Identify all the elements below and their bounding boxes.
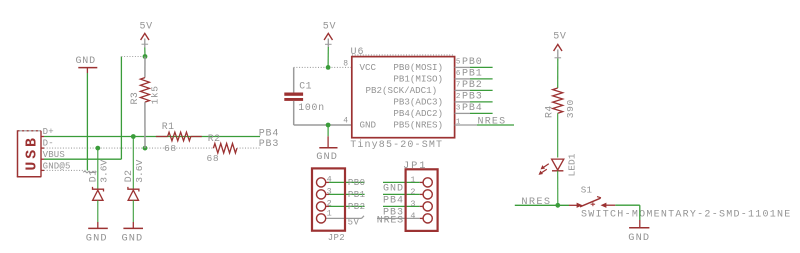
supply 5V (left) arrow: [141, 33, 149, 40]
led LED1 arrow 1: [541, 164, 549, 169]
led LED1 name: [567, 153, 578, 176]
svg-text:GND: GND: [86, 232, 108, 244]
connector JP2 pin4 number: [327, 174, 332, 184]
connector JP1 wire pin4: [377, 217, 423, 219]
svg-text:PB2: PB2: [462, 80, 483, 91]
svg-text:6: 6: [456, 70, 461, 78]
connector JP1 pin1 number: [410, 175, 415, 185]
junction D+ / D2: [131, 134, 136, 139]
connector JP1 pin4 circle: [423, 214, 432, 223]
pin D- stub: [41, 147, 44, 149]
svg-text:C1: C1: [299, 80, 312, 91]
connector JP1 wire pin2: [383, 193, 423, 195]
wire switch to GND: [615, 205, 640, 220]
pin 1 number: [456, 118, 461, 126]
resistor R2 name: [208, 133, 221, 144]
node PB3 label: [259, 139, 280, 150]
svg-text:7: 7: [456, 82, 461, 90]
svg-text:LED1: LED1: [567, 153, 578, 176]
resistor R1 value: [164, 143, 177, 154]
ground GND (under D1) stub: [97, 222, 99, 228]
connector JP1 pin4 number: [410, 211, 415, 221]
connector JP2 wire pin2: [326, 205, 365, 207]
connector JP1 pin3 circle: [423, 202, 432, 211]
node 5V label (JP2): [348, 217, 360, 227]
junction D- / D1: [95, 146, 100, 151]
diode D1 name: [88, 170, 99, 183]
wire D- net (row B) left of R2: [44, 147, 213, 149]
ground GND (under U6) bar: [319, 147, 337, 149]
capacitor C1 plate bottom: [284, 98, 303, 101]
pin PB0 name: [393, 62, 443, 73]
capacitor C1 value: [298, 102, 325, 113]
wire D+ net (row A): [44, 136, 260, 138]
diode D1 triangle: [93, 190, 103, 200]
svg-text:3: 3: [410, 199, 415, 209]
resistor R4 name: [544, 105, 555, 118]
pin 6 stub: [455, 78, 493, 80]
diode D2 wire bottom: [132, 200, 134, 222]
svg-text:1: 1: [410, 175, 415, 185]
pin 8 number: [343, 60, 348, 69]
svg-text:PB1: PB1: [462, 69, 483, 80]
svg-text:JP2: JP2: [328, 233, 345, 243]
capacitor C1 plate top: [284, 93, 303, 96]
diode D2 zener bar: [128, 187, 139, 192]
ground GND (right) bar: [629, 227, 649, 229]
pin 5 number: [456, 59, 461, 67]
svg-text:PB3: PB3: [259, 139, 280, 150]
supply 5V (left) stub: [142, 39, 149, 48]
pin VBUS name: [43, 150, 65, 160]
junction 5V / R3 top: [143, 54, 148, 59]
svg-text:VBUS: VBUS: [43, 150, 65, 160]
connector JP1 pin3 number: [410, 199, 415, 209]
connector JP2 box: [312, 168, 345, 230]
pin 3 stub: [455, 112, 493, 114]
junction NRES / LED: [555, 203, 560, 208]
svg-text:390: 390: [565, 99, 576, 118]
pin PB3 name: [393, 96, 443, 107]
wire VBUS riser: [120, 57, 122, 160]
pin 2 stub: [455, 101, 493, 103]
junction GND rail: [326, 123, 331, 128]
switch S1 name: [581, 184, 593, 195]
node PB4 label: [259, 128, 280, 139]
pin VBUS stub: [41, 158, 44, 160]
svg-text:SWITCH-MOMENTARY-2-SMD-1101NE: SWITCH-MOMENTARY-2-SMD-1101NE: [581, 209, 792, 220]
node PB3 label (at U6): [462, 92, 483, 103]
diode D1 wire top: [97, 148, 99, 188]
ground GND (under D2) label: [122, 232, 144, 244]
svg-text:5V: 5V: [323, 22, 336, 33]
junction D- / R3: [143, 146, 148, 151]
svg-text:GND: GND: [628, 232, 650, 244]
svg-text:PB3(ADC3): PB3(ADC3): [393, 96, 443, 107]
svg-text:PB2: PB2: [348, 202, 366, 212]
node PB0 label (JP2): [348, 178, 366, 188]
ground GND (under D1) label: [86, 232, 108, 244]
svg-text:GND@5: GND@5: [43, 161, 71, 171]
svg-text:NRES: NRES: [478, 117, 507, 128]
wire 5V to junction: [144, 48, 146, 57]
connector JP1 box: [406, 169, 438, 231]
svg-text:3: 3: [456, 105, 461, 113]
resistor R1 right lead: [191, 136, 202, 138]
svg-text:JP1: JP1: [403, 160, 427, 172]
switch S1 left contact: [569, 203, 582, 207]
svg-text:GND: GND: [383, 183, 404, 194]
connector USB right edge: [40, 131, 42, 177]
pin PB2 name: [366, 85, 438, 96]
capacitor C1 top lead: [293, 67, 295, 92]
resistor R3 name: [129, 92, 140, 105]
pin GND@5 squiggle: [83, 171, 97, 173]
node NRES label (left): [521, 196, 551, 208]
svg-text:1k5: 1k5: [150, 85, 161, 104]
ground GND (under U6) label: [316, 151, 338, 163]
connector USB left edge: [17, 130, 19, 177]
resistor R3 bottom lead: [144, 102, 146, 148]
ground GND (right) stub: [639, 220, 641, 228]
svg-text:100n: 100n: [298, 102, 325, 113]
wire 5V to R4: [557, 59, 559, 89]
pin D+ stub: [41, 136, 44, 138]
svg-text:GND: GND: [316, 151, 338, 163]
pin VCC name: [360, 62, 377, 73]
svg-text:PB1(MISO): PB1(MISO): [393, 73, 443, 84]
capacitor C1 bottom lead: [293, 101, 295, 125]
svg-text:3: 3: [327, 186, 332, 196]
svg-text:GND: GND: [360, 120, 377, 131]
connector JP2 name: [328, 233, 345, 243]
svg-text:1: 1: [456, 118, 461, 126]
wire GND vertical: [86, 73, 88, 170]
svg-text:2: 2: [456, 93, 461, 101]
pin 5 stub: [455, 66, 493, 68]
svg-text:5V: 5V: [140, 22, 153, 33]
connector JP1 pin2 circle: [423, 190, 432, 199]
connector JP2 wire pin4: [326, 181, 365, 183]
svg-text:S1: S1: [581, 184, 593, 195]
connector JP1 pin2 number: [410, 187, 415, 197]
svg-text:D+: D+: [43, 127, 54, 137]
node PB4 label (at U6): [462, 103, 483, 114]
ic U6 box: [352, 57, 455, 138]
resistor R3 zigzag: [140, 78, 149, 103]
junction VCC rail / 5V: [326, 65, 331, 70]
ground GND (top-left) stub: [86, 68, 88, 73]
svg-text:1: 1: [327, 208, 332, 218]
diode D2 value: [134, 160, 145, 183]
pin 2 number: [456, 93, 461, 101]
connector JP1 pin1 circle: [423, 178, 432, 187]
svg-text:PB2(SCK/ADC1): PB2(SCK/ADC1): [366, 85, 438, 96]
svg-text:PB5(NRES): PB5(NRES): [393, 120, 443, 131]
ground GND (under U6) stub: [327, 136, 329, 147]
pin PB4 name: [393, 108, 443, 119]
svg-text:PB4(ADC2): PB4(ADC2): [393, 108, 443, 119]
supply 5V (middle) stub: [325, 39, 332, 48]
node NRES label (at U6): [478, 117, 507, 128]
svg-text:5V: 5V: [553, 31, 566, 42]
switch S1 lever: [580, 197, 601, 207]
switch S1 actuator mark: [591, 202, 596, 206]
connector JP1 name: [403, 160, 427, 172]
svg-text:8: 8: [343, 60, 348, 69]
resistor R4 value: [565, 99, 576, 118]
svg-text:PB4: PB4: [383, 195, 404, 206]
node GND label (JP1): [383, 183, 404, 194]
pin 3 number: [456, 105, 461, 113]
wire 5V to VCC rail: [327, 47, 329, 67]
resistor R3 value: [150, 85, 161, 104]
svg-text:3.6V: 3.6V: [98, 160, 109, 183]
led LED1 wire bottom: [557, 171, 559, 206]
ground GND (under D1) bar: [88, 227, 108, 229]
pin 4 number: [343, 117, 348, 126]
diode D2 triangle: [128, 190, 138, 200]
node NRES label (JP1): [377, 216, 404, 227]
connector USB label: [24, 135, 41, 170]
svg-text:5V: 5V: [348, 217, 360, 227]
node PB1 label (JP2): [348, 190, 366, 200]
connector USB bottom edge: [17, 176, 42, 178]
pin 7 stub: [455, 89, 493, 91]
svg-text:R1: R1: [162, 121, 175, 132]
svg-text:PB0: PB0: [348, 178, 366, 188]
node PB1 label (at U6): [462, 69, 483, 80]
svg-text:NRES: NRES: [521, 196, 551, 208]
pin 7 number: [456, 82, 461, 90]
ic U6 value: [350, 139, 443, 151]
resistor R4 zigzag: [553, 88, 563, 113]
diode D1 zener bar: [93, 187, 104, 192]
led LED1 triangle: [552, 159, 564, 170]
connector JP1 wire pin3: [383, 205, 423, 207]
svg-text:R4: R4: [544, 105, 555, 118]
connector JP2 pin3 circle: [317, 190, 326, 199]
node PB4 label (JP1): [383, 195, 404, 206]
supply 5V (middle) label: [323, 22, 336, 33]
connector JP2 pin2 circle: [317, 202, 326, 211]
svg-text:3.6V: 3.6V: [134, 160, 145, 183]
svg-text:VCC: VCC: [360, 62, 377, 73]
svg-text:4: 4: [410, 211, 415, 221]
ground GND (right) label: [628, 232, 650, 244]
svg-text:Tiny85-20-SMT: Tiny85-20-SMT: [350, 139, 443, 151]
svg-text:2: 2: [327, 198, 332, 208]
svg-text:PB3: PB3: [462, 92, 483, 103]
connector USB top edge: [18, 130, 42, 132]
svg-text:68: 68: [164, 143, 177, 154]
resistor R2 zigzag: [213, 144, 237, 154]
wire D- net (row B) right of R2: [237, 147, 260, 149]
ground GND (under D2) bar: [123, 227, 143, 229]
ground GND (under D2) stub: [132, 222, 134, 228]
supply 5V (right) arrow: [554, 44, 562, 51]
resistor R1 zigzag: [168, 132, 191, 141]
diode D2 wire top: [132, 137, 134, 189]
svg-text:NRES: NRES: [377, 216, 404, 227]
wire VCC rail (C1 to U6 pin8): [294, 66, 352, 68]
diode D1 value: [98, 160, 109, 183]
resistor R2 value: [207, 153, 220, 164]
svg-text:68: 68: [207, 153, 220, 164]
connector JP2 pin1 circle: [317, 214, 326, 223]
pin D- name: [43, 139, 54, 149]
wire GND rail (C1 to U6 pin4): [294, 124, 352, 126]
supply 5V (right) label: [553, 31, 566, 42]
node PB3 label (JP1): [383, 207, 404, 218]
ic U6 name: [351, 47, 365, 58]
svg-text:5: 5: [456, 59, 461, 67]
supply 5V (left) label: [140, 22, 153, 33]
ic U6 dotted top line: [352, 54, 455, 56]
svg-text:D-: D-: [43, 139, 54, 149]
wire GND@5 net (row D): [44, 169, 87, 171]
supply 5V (right) stub: [555, 50, 562, 59]
connector JP2 pin2 number: [327, 198, 332, 208]
node PB2 label (at U6): [462, 80, 483, 91]
resistor R1 name: [162, 121, 175, 132]
svg-text:PB0: PB0: [462, 57, 483, 68]
led LED1 arrow 2: [539, 169, 547, 174]
svg-text:D2: D2: [123, 170, 134, 183]
svg-text:PB1: PB1: [348, 190, 366, 200]
connector JP2 wire pin3: [326, 193, 365, 195]
pin GND@5 name: [43, 161, 71, 171]
connector JP2 pin1 number: [327, 208, 332, 218]
svg-text:R3: R3: [129, 92, 140, 105]
pin 1 stub: [455, 124, 514, 126]
resistor R4 bottom lead: [557, 113, 559, 157]
svg-text:PB4: PB4: [259, 128, 280, 139]
connector JP2 pin4 circle: [317, 178, 326, 187]
ground GND (top-left) bar: [78, 67, 97, 69]
pin GND@5 stub: [41, 169, 44, 171]
switch S1 right contact: [602, 203, 616, 207]
connector JP2 pin3 number: [327, 186, 332, 196]
pin PB1 name: [393, 73, 443, 84]
wire VBUS net (row C): [44, 158, 121, 160]
pin GND name: [360, 120, 377, 131]
svg-text:PB0(MOSI): PB0(MOSI): [393, 62, 443, 73]
svg-text:USB: USB: [24, 135, 41, 170]
node PB0 label (at U6): [462, 57, 483, 68]
svg-text:GND: GND: [76, 56, 96, 67]
connector JP2 wire pin1: [326, 216, 364, 219]
node PB2 label (JP2): [348, 202, 366, 212]
svg-text:2: 2: [410, 187, 415, 197]
connector JP1 wire pin1: [383, 181, 423, 183]
wire GND drop: [327, 125, 329, 136]
diode D1 wire bottom: [97, 200, 99, 222]
pin PB5 name: [393, 120, 443, 131]
diode D2 name: [123, 170, 134, 183]
svg-text:PB4: PB4: [462, 103, 483, 114]
led LED1 bar: [552, 170, 563, 172]
pin 6 number: [456, 70, 461, 78]
svg-text:4: 4: [343, 117, 348, 126]
pin D+ name: [43, 127, 54, 137]
wire 5V link to R3 top: [121, 56, 145, 58]
svg-text:GND: GND: [122, 232, 144, 244]
svg-text:R2: R2: [208, 133, 221, 144]
switch S1 value: [581, 209, 792, 220]
supply 5V (middle) arrow: [324, 33, 332, 40]
resistor R3 top lead: [144, 57, 146, 78]
wire NRES: [515, 204, 569, 206]
svg-text:4: 4: [327, 174, 332, 184]
resistor R1 left lead: [156, 136, 168, 138]
svg-text:D1: D1: [88, 170, 99, 183]
capacitor C1 name: [299, 80, 312, 91]
ground GND (top-left) label: [76, 56, 96, 67]
